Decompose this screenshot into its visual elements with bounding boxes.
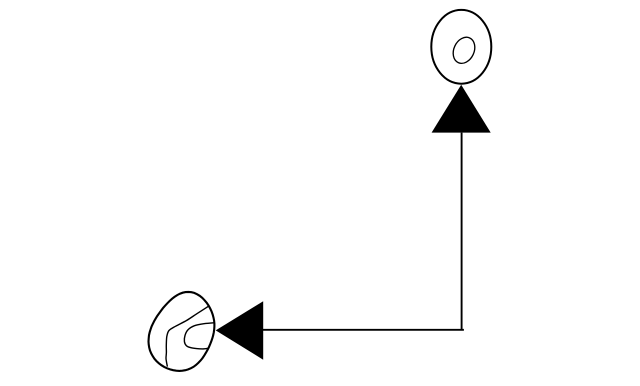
arrowhead A2 (pointing left at grommet) [216, 301, 264, 360]
grommet G1 outer body (bottom left) [149, 292, 215, 371]
arrowhead A1 (pointing up at washer) [432, 85, 491, 133]
wire vertical segment [461, 133, 463, 330]
wire horizontal segment [263, 329, 464, 331]
grommet G1 bore hole [184, 323, 213, 349]
washer W1 inner hole [449, 34, 479, 67]
grommet G1 rim edge curve [166, 306, 208, 366]
washer W1 outer ring (top right) [431, 10, 491, 84]
